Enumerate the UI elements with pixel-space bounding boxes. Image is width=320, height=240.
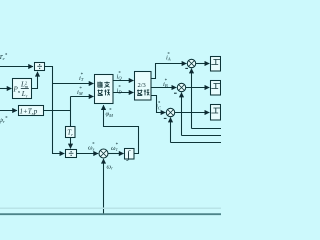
svg-text:1+Trp: 1+Trp xyxy=(20,108,38,117)
svg-text:ω1*: ω1* xyxy=(111,143,118,152)
svg-text:2/3: 2/3 xyxy=(138,82,146,89)
svg-text:÷: ÷ xyxy=(68,149,74,160)
svg-text:ωs*: ωs* xyxy=(88,143,95,152)
svg-text:÷: ÷ xyxy=(37,62,43,73)
